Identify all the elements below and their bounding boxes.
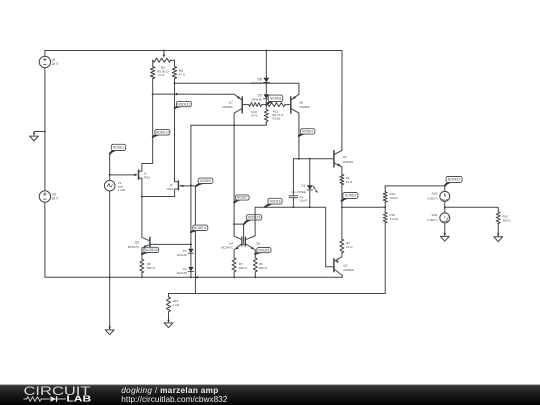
wire feedback bottom (169, 293, 386, 295)
node junction D1 bottom (309, 206, 311, 208)
label Q5 (256, 242, 260, 246)
node junction output (444, 206, 446, 208)
label R6 (259, 262, 268, 270)
resistor R8 (140, 259, 144, 277)
wire Q3 base row (293, 158, 334, 160)
wire Q1 base (150, 243, 191, 245)
wire ground tap (34, 131, 45, 134)
svg-text:2N3906: 2N3906 (222, 105, 233, 109)
wire gate to divider (194, 186, 196, 293)
node junction J1 gate tap (109, 174, 111, 176)
label Q1 (128, 241, 140, 249)
wire D8 to D3 (265, 83, 267, 94)
resistor R4 (172, 60, 176, 83)
svg-text:Q3: Q3 (343, 155, 347, 159)
svg-text:47 Ω: 47 Ω (179, 73, 186, 77)
resistor R6 (253, 258, 257, 277)
wire tail to Q1 (141, 197, 143, 238)
node label NODE9 (197, 178, 213, 186)
potentiometer R5 (153, 58, 175, 62)
wire V+ top rail (45, 51, 342, 151)
svg-text:22 Ω: 22 Ω (346, 245, 353, 249)
resistor R7 (232, 258, 236, 277)
svg-text:560 Ω: 560 Ω (239, 266, 248, 270)
node label NODE7 (234, 195, 249, 203)
svg-text:NODE5: NODE5 (270, 199, 281, 203)
resistor R10 (242, 103, 266, 107)
wire V1 to V3 (44, 68, 46, 191)
svg-text:NODE8: NODE8 (270, 97, 281, 101)
node junction bases tap (233, 223, 235, 225)
label R16 (173, 299, 180, 307)
potentiometer R5 wiper (163, 51, 166, 58)
label R19 (390, 192, 399, 200)
voltmeter VM1 (440, 207, 450, 232)
svg-text:NODE12: NODE12 (178, 102, 191, 106)
svg-text:Q5: Q5 (256, 242, 260, 246)
node label NODE16b (445, 177, 462, 186)
svg-text:NODE4: NODE4 (302, 130, 313, 134)
label R8 (147, 262, 156, 270)
diode D4 (188, 267, 193, 277)
label J1 (143, 172, 150, 180)
resistor R1 (151, 60, 155, 94)
wire hop arrow B (197, 276, 200, 279)
node label NODE16a (142, 247, 159, 254)
node junction Q1 base (190, 243, 192, 245)
wire mirror column (233, 125, 235, 236)
transistor Q7 (234, 94, 242, 125)
svg-text:1 kΩ: 1 kΩ (173, 303, 180, 307)
node junction rail-ground (44, 131, 46, 133)
label AM1 (428, 192, 439, 201)
node label NODE12 (175, 101, 192, 108)
label Q6 (299, 101, 310, 109)
svg-text:10 µF: 10 µF (299, 199, 307, 203)
svg-text:Q2: Q2 (343, 263, 347, 267)
node junction R19 bottom (384, 206, 386, 208)
wire V2 down (109, 191, 111, 277)
resistor R19 (383, 186, 387, 207)
resistor R18 (383, 207, 387, 293)
resistor R2 (340, 174, 344, 207)
svg-text:47 Ω: 47 Ω (251, 113, 258, 117)
node label NODE15 (244, 215, 261, 224)
resistor R5 (340, 207, 344, 253)
node label NODE13 (153, 129, 170, 136)
label R15 (503, 214, 512, 222)
resistor R9 (264, 105, 268, 126)
label D3 (251, 94, 262, 102)
label V2 (118, 181, 126, 192)
label R10 (251, 110, 258, 118)
diode D7 (188, 244, 193, 267)
node junction Q3 emitter (341, 206, 343, 208)
node junction V2 bottom (109, 276, 111, 278)
wire V3 to bottom rail (45, 202, 342, 277)
svg-text:0.000 V: 0.000 V (427, 218, 437, 222)
label J2 (166, 183, 173, 191)
node junction R6 bottom (254, 276, 256, 278)
label R4 (179, 69, 186, 77)
node junction D8 cathode (265, 82, 267, 84)
svg-text:NODE15: NODE15 (248, 216, 261, 220)
node junction R4 bottom (174, 82, 176, 84)
diode D8 (263, 78, 269, 83)
jfet J1 (139, 94, 153, 196)
svg-text:LTL-307EE: LTL-307EE (291, 190, 305, 194)
ground VM1 (440, 232, 449, 241)
transistor Q1 (142, 237, 150, 259)
label Q4 (222, 242, 234, 250)
transistor Q3 (334, 151, 342, 175)
node junction D1 top (309, 158, 311, 160)
resistor R15 (496, 212, 500, 233)
svg-text:560 Ω: 560 Ω (147, 266, 156, 270)
wire V2 stub (109, 154, 111, 181)
wire hop arrow A (176, 93, 179, 96)
resistor R11 (266, 103, 291, 107)
svg-text:NODE6: NODE6 (258, 248, 269, 252)
svg-text:1N4148: 1N4148 (251, 98, 262, 102)
node label NODE8 (266, 95, 282, 104)
wire J1 gate (110, 174, 138, 177)
ground V2 (105, 277, 114, 334)
resistor R16 (167, 294, 171, 319)
node junction C1 top (298, 158, 300, 160)
node label NODE6 (255, 248, 271, 255)
label R2 (346, 176, 353, 184)
ground left rail (30, 132, 39, 141)
led D1 (307, 159, 318, 207)
transistor Q6 (291, 94, 299, 159)
transistor Q4 (234, 236, 242, 258)
node label NODE4 (299, 129, 315, 136)
svg-text:390 Ω: 390 Ω (503, 218, 512, 222)
node junction R1 bottom (152, 93, 154, 95)
svg-text:3.3 kΩ: 3.3 kΩ (390, 217, 400, 221)
svg-text:VM1: VM1 (432, 213, 439, 217)
voltage source V3 (39, 191, 59, 202)
svg-text:18 V: 18 V (52, 197, 60, 201)
svg-text:1N4148: 1N4148 (177, 271, 188, 275)
footer bar (0, 385, 540, 405)
label D1 (291, 184, 305, 194)
svg-text:NODE11: NODE11 (194, 226, 207, 230)
node junction feedback-gate (190, 183, 192, 185)
wire Q5 collector up (254, 207, 256, 236)
capacitor C1 (289, 159, 298, 207)
svg-text:D1: D1 (302, 184, 306, 188)
svg-text:BC547C: BC547C (128, 245, 140, 249)
svg-text:NODE16: NODE16 (448, 178, 461, 182)
node junction R7 bottom (233, 276, 235, 278)
label Q2 (343, 263, 354, 272)
svg-text:1 kHz: 1 kHz (118, 188, 126, 192)
svg-text:18 V: 18 V (52, 62, 60, 66)
transistor Q5 (242, 236, 256, 258)
wire to load (445, 207, 498, 212)
ammeter AM1 (440, 186, 450, 207)
node label NODE11 (191, 225, 208, 232)
svg-text:22 Ω: 22 Ω (346, 180, 353, 184)
wire NODE11 line (190, 186, 192, 245)
svg-text:NODE3: NODE3 (345, 194, 356, 198)
svg-text:2N3906: 2N3906 (343, 268, 354, 272)
diode D3 (263, 94, 269, 105)
svg-text:2N3906: 2N3906 (299, 105, 310, 109)
node label NODE1 (110, 144, 126, 153)
svg-text:NODE16: NODE16 (145, 248, 158, 252)
svg-text:1N4148: 1N4148 (177, 253, 188, 257)
label D8 (251, 77, 262, 85)
svg-text:dogking / marzelan amp: dogking / marzelan amp (121, 386, 218, 395)
wire Q6 emitter to D8 node (266, 83, 299, 94)
node junction rail-D8 (265, 50, 267, 52)
node junction Q7-col (233, 124, 235, 126)
wire R4 to D8 cathode (175, 82, 267, 84)
ground R16 (164, 319, 173, 328)
node junction D4 bottom (190, 276, 192, 278)
svg-text:0.000 A: 0.000 A (428, 197, 438, 201)
svg-text:2N3904: 2N3904 (343, 160, 354, 164)
node junction rail-pot (163, 50, 165, 52)
footer title text (121, 386, 227, 404)
label R5 (346, 241, 353, 249)
jfet J2 (175, 83, 179, 196)
node label NODE3 (342, 193, 358, 202)
label D7 (177, 249, 188, 257)
wire Q7 emitter (153, 93, 234, 95)
voltage source V1 (39, 56, 59, 67)
svg-text:100 Ω: 100 Ω (390, 196, 399, 200)
ground R15 (494, 232, 503, 241)
wire VAS to output divider (342, 206, 385, 208)
transistor Q2 (334, 253, 342, 277)
label R1 (157, 66, 169, 77)
svg-text:BC547C: BC547C (222, 246, 234, 250)
wire NODE5 row (255, 207, 334, 267)
svg-text:AM1: AM1 (432, 192, 439, 196)
wire sources join (142, 196, 175, 198)
CircuitLab logo (24, 384, 92, 404)
svg-text:560 Ω: 560 Ω (259, 266, 268, 270)
svg-text:NODE9: NODE9 (200, 179, 211, 183)
svg-text:NODE7: NODE7 (237, 196, 248, 200)
node label NODE5 (265, 198, 282, 207)
svg-text:LAB: LAB (66, 394, 91, 404)
label C1 (299, 195, 307, 203)
label Q3 (343, 155, 354, 164)
svg-text:JF10: JF10 (166, 187, 173, 191)
wire bases tap (234, 224, 244, 243)
wire rail to D8 (265, 51, 267, 78)
svg-text:JF10: JF10 (143, 176, 150, 180)
node junction C1 bottom (292, 206, 294, 208)
label R11 R9 (272, 109, 284, 120)
svg-text:NODE13: NODE13 (156, 131, 169, 135)
wire output row (385, 185, 445, 187)
svg-text:http://circuitlab.com/cbwx832: http://circuitlab.com/cbwx832 (121, 395, 227, 404)
voltage source V2 (104, 180, 115, 191)
svg-text:33 kΩ: 33 kΩ (272, 117, 281, 121)
label D4 (177, 267, 188, 275)
label R18 (390, 213, 400, 221)
label VM1 (427, 213, 438, 222)
wire feedback row (191, 125, 266, 186)
label R7 (239, 262, 248, 270)
wire J2 gate (180, 185, 197, 188)
svg-text:47 Ω: 47 Ω (158, 73, 165, 77)
node junction J1 source (141, 196, 143, 198)
node junction R8 bottom (141, 276, 143, 278)
label Q7 (222, 101, 233, 109)
node junction bias center (265, 104, 267, 106)
svg-text:NODE1: NODE1 (113, 146, 124, 150)
